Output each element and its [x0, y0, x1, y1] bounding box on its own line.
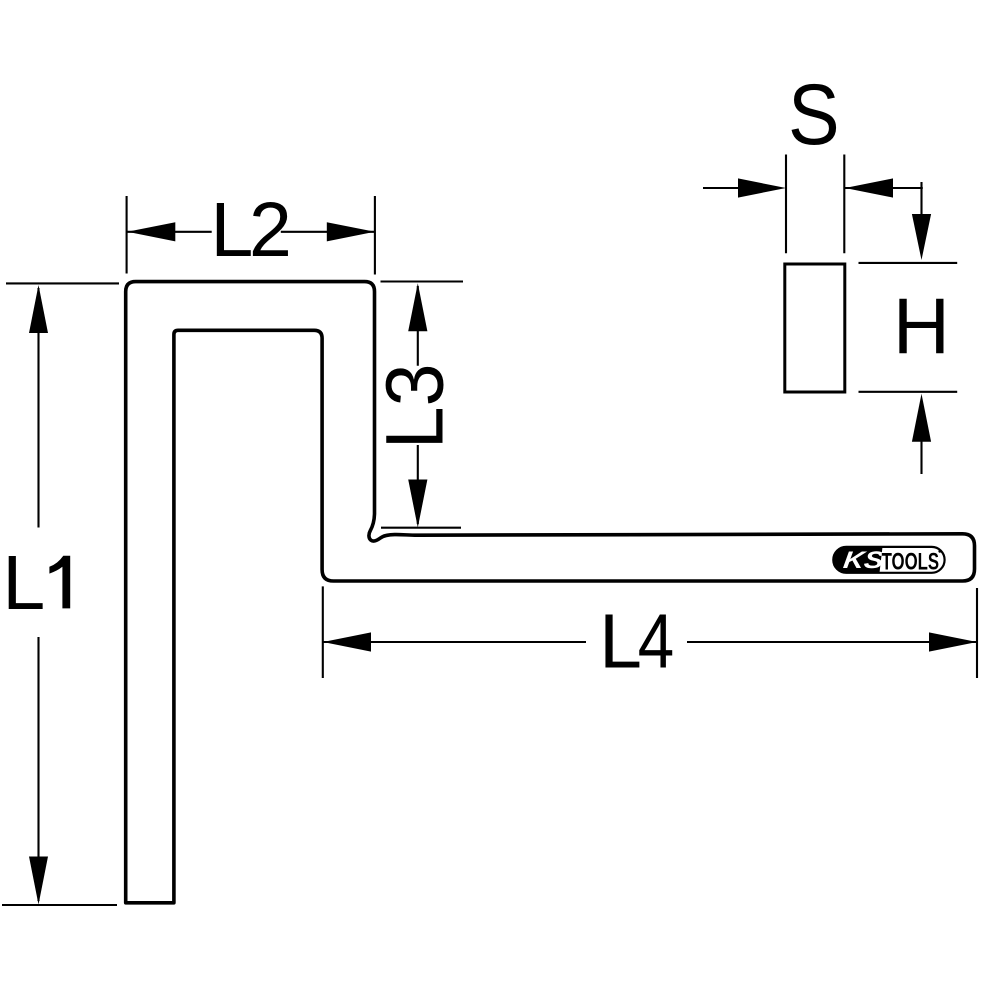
svg-text:4: 4: [638, 599, 674, 685]
svg-text:L3: L3: [368, 364, 460, 450]
KS TOOLS logo: [833, 546, 944, 575]
cross-section rectangle: [785, 264, 845, 392]
svg-text:L: L: [599, 599, 642, 685]
dimension L2: [127, 196, 375, 275]
tool outline: [126, 282, 975, 903]
svg-text:2: 2: [249, 187, 292, 273]
svg-text:L: L: [211, 187, 254, 273]
svg-text:S: S: [788, 67, 840, 163]
svg-text:KS: KS: [842, 546, 886, 573]
svg-text:TOOLS: TOOLS: [882, 549, 940, 576]
dimension L3: [381, 282, 464, 528]
dimension H: [859, 263, 958, 474]
dimension L1: [2, 283, 119, 905]
dimension L4: [323, 586, 977, 678]
dimension S: [703, 155, 923, 254]
svg-text:H: H: [893, 281, 950, 370]
svg-text:L: L: [2, 540, 45, 626]
